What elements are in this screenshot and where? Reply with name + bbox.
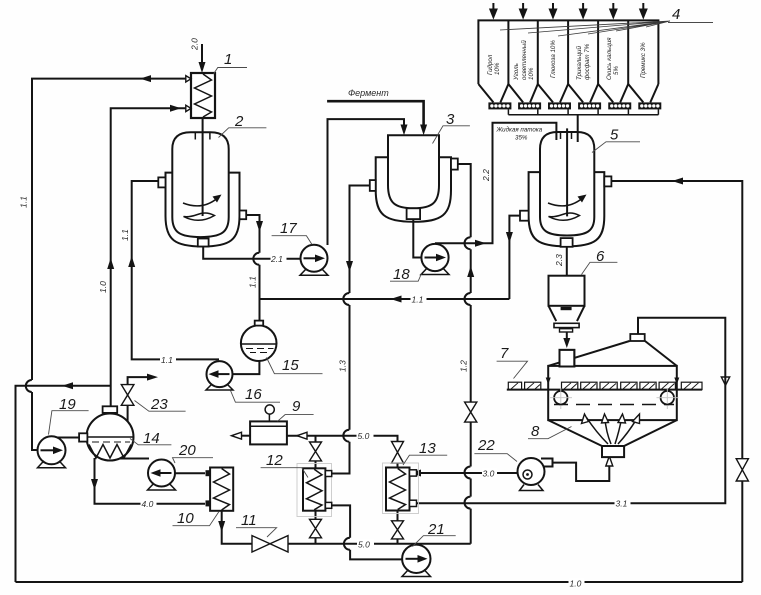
svg-text:2.1: 2.1 [270,254,283,264]
svg-text:2.3: 2.3 [554,254,564,267]
wire: 4.0 line vessel14 bottom to HX10 bottom-left port [91,458,205,504]
svg-text:10%: 10% [494,62,501,75]
svg-text:1.2: 1.2 [459,360,469,372]
valve on right riser [736,459,748,481]
pump 16 [206,361,233,390]
hopper funnels [478,84,658,102]
svg-text:1.1: 1.1 [19,196,29,208]
svg-text:2.2: 2.2 [481,169,491,182]
wire: 3.0 line blower to HX13 top-right port [410,470,518,477]
vessel 3 : jacket [370,135,458,222]
svg-text:35%: 35% [515,134,528,141]
vessel 3 bottom neck [407,208,421,219]
equipment number labels [49,51,641,547]
svg-text:1.1: 1.1 [248,276,258,288]
vessel 2 bottom neck [198,239,209,247]
svg-text:Гидрол: Гидрол [487,54,494,75]
svg-text:фосфат 7%: фосфат 7% [584,43,591,80]
wire: HX12 bottom-right port down to pump21 inlet [332,505,402,559]
wire: 1.3 line vessel3 left nozzle down to HX12 top-right port [332,186,370,474]
svg-text:Трикальций: Трикальций [576,46,583,80]
pump 19 [38,436,66,468]
svg-text:16: 16 [245,386,262,403]
wire: pump20 inlet from vessel14 [120,458,150,460]
wire: vessel2 left nozzle line to x131.7 riser to pump16 discharge [128,181,219,359]
feed arrows above hoppers [489,3,648,20]
vessel 5 : jacket [520,128,611,246]
dryer rollers [550,388,679,409]
svg-text:5.0: 5.0 [358,540,370,550]
wire: 1.2 line vessel3 right nozzle down to pump21 discharge corner [458,164,474,544]
valve on 1.2 line [465,402,477,422]
valve 23 [121,385,134,406]
wire: vessel5 left nozzle down to 1.1 line [506,216,521,299]
svg-text:5: 5 [610,127,619,144]
vessel 3 right nozzle [451,159,458,170]
sphere 15 [241,321,277,361]
separator 9 with gauge [250,405,287,445]
svg-text:Уголь: Уголь [513,63,520,81]
svg-text:1.3: 1.3 [338,360,348,372]
pump 18 [421,244,449,275]
svg-text:23: 23 [150,396,168,413]
svg-text:3.0: 3.0 [483,468,495,478]
flow code labels: rotated on vertical lines [19,38,565,372]
conveyor screen 7 [507,378,702,390]
wire: y386 line from riser to far-left down-leg [16,382,111,582]
wire: sphere15 top riser [259,299,261,322]
svg-text:7: 7 [500,345,509,362]
svg-text:1.1: 1.1 [120,229,130,241]
vessel 2 stirrer rotation arrow [183,199,217,206]
blower 22 [518,458,553,491]
svg-text:11: 11 [241,512,257,529]
vessel 5 inner shell [540,132,594,236]
wire: HX12 bottom stub + valve [310,511,322,544]
heat exchanger 13 with faint box [383,463,419,514]
drain symbol on x725 line [721,377,729,385]
wire: pump17 riser up and into vessel3 top-left [328,119,408,245]
valve 11 [252,536,288,552]
wire: feed 2.0 into exchanger 1 [199,44,206,73]
wire: HX12 top stub + valve [310,436,322,469]
svg-text:20: 20 [178,442,196,459]
wire: 1.1 mid horizontal line [260,296,510,303]
dryer feed chute [560,350,575,367]
heat exchanger 1 [186,73,215,118]
hopper content labels [487,37,647,81]
wire: vessel2 right nozzle down to 1.1 junction [246,215,263,299]
hopper 6 [549,276,585,348]
heat exchanger 12 with faint box [297,464,332,517]
wire: pump19 discharge to vessel14 left nozzle [50,437,79,439]
svg-text:1.1: 1.1 [412,294,424,304]
svg-text:Премикс 3%: Премикс 3% [640,42,647,78]
wire: HX13 top valve [392,442,404,468]
vessel 14 (sphere with coil) [79,406,133,460]
wire: blower22 discharge duct to dryer bottom box [553,456,613,481]
wire: valve23 branch from vessel14 top [128,374,158,422]
wire: vessel5 bottom 2.3 line to hopper6 [566,247,568,276]
vessel 2 left nozzle [158,177,165,187]
svg-text:12: 12 [266,452,283,469]
label 4 [500,6,713,36]
vessel 5 right nozzle [604,176,611,186]
svg-text:Глюкоза 10%: Глюкоза 10% [550,40,557,78]
vessel 5 bottom neck [561,238,573,247]
hoppers 4 : six bins [478,20,658,102]
svg-text:1.0: 1.0 [570,578,582,588]
vessel 3 left nozzle [370,180,376,191]
svg-text:2.0: 2.0 [190,38,200,51]
svg-text:5.0: 5.0 [358,431,370,441]
svg-text:8: 8 [531,423,540,440]
vessel 3 inner shell [388,135,439,208]
svg-text:Жидкая патока: Жидкая патока [496,127,543,134]
svg-text:5%: 5% [613,66,620,75]
svg-text:1.0: 1.0 [98,281,108,293]
svg-text:Окись кальция: Окись кальция [606,37,613,80]
pump 17 [300,245,328,276]
svg-text:22: 22 [477,437,495,454]
wire: 3.1 line HX13 bottom-right port to right riser x725 and to dryer chimney [417,318,726,504]
svg-text:13: 13 [419,440,436,457]
dryer feed chute overlay [560,350,575,367]
svg-text:15: 15 [282,357,299,374]
wire: bottom 1.0 line [16,581,743,583]
dryer 8 body [548,334,677,457]
svg-text:18: 18 [393,266,410,283]
dryer air distribution arrows [582,414,640,444]
svg-text:4: 4 [672,6,680,23]
vessel 2 stirrer paddle [184,213,215,220]
vessel 2 (fermenter) : jacket [158,118,246,247]
vessel 5 stirrer rotation arrow [548,199,582,206]
wire: HX13 bottom stub + valve [392,511,404,544]
svg-text:17: 17 [280,220,297,237]
dryer belt dashed line [554,404,674,406]
svg-text:1.1: 1.1 [161,355,173,365]
vessel 5 left nozzle [520,211,529,221]
vessel 2 dome nozzle ticks [195,132,210,140]
wire: right riser from bottom line to vessel5 right nozzle [611,178,742,583]
vessel 2 inner shell [172,132,228,237]
pump 21 [402,545,431,577]
heat exchanger 10 [206,468,234,511]
flow code labels: on horizontal lines with white gaps [141,254,631,588]
vessel 5 dome nozzle ticks [561,132,572,140]
svg-text:10%: 10% [528,67,535,80]
wire: 5.0 upper vent line with open arrows [232,432,398,441]
wire: bottom 5.0 line from HX10 outlet through valve11 to x470 corner [218,511,471,544]
wire: sphere15 bottom to pump16 inlet [233,361,259,374]
vessel 5 stirrer paddle [549,213,580,220]
liquid molasses feed note box [496,127,543,142]
wire: 2.1 line vessel2 bottom to pump17 [203,247,300,259]
svg-text:4.0: 4.0 [142,499,154,509]
svg-text:9: 9 [292,398,301,415]
wire: exchanger1 top-left to left riser x32 down to pump19 [26,75,188,450]
vessel 2 stirrer shaft [202,118,204,216]
wire: ferment line into vessel3 top-right [327,101,427,135]
hopper feeder boxes (screw feeders) [488,102,661,109]
wire: hopper collection header and drops [508,109,658,142]
svg-text:осветленный: осветленный [521,40,528,80]
svg-text:10: 10 [177,510,194,527]
pump 20 [148,460,176,491]
svg-text:1: 1 [224,51,232,68]
svg-text:Фермент: Фермент [348,88,389,98]
wire: vessel3 bottom outlet to pump18 inlet [413,219,422,257]
svg-text:3.1: 3.1 [616,499,628,509]
wire: 2.2 pump18 discharge up to vessel5 dome [435,123,556,247]
wire: vessel14 riser 1.0 up to exchanger1 bottom-left [107,105,188,406]
vessel 2 right nozzle [240,211,247,220]
vessel 5 stirrer shaft [566,128,568,216]
wire: pump20 discharge to HX10 top-left port [175,472,205,474]
